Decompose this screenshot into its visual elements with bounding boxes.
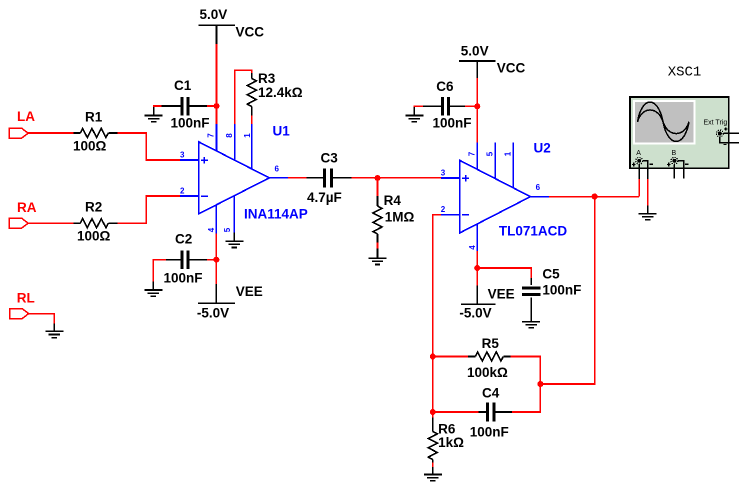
wire C4 right up to node	[512, 384, 540, 412]
resistor R5 100k	[467, 336, 511, 380]
wire C3 to U2 pin3	[351, 177, 441, 179]
svg-text:4.7µF: 4.7µF	[307, 190, 342, 205]
resistor R2 100 ohm	[73, 200, 117, 244]
svg-text:1: 1	[243, 133, 252, 138]
svg-text:R1: R1	[85, 110, 103, 125]
wire RA to R2	[28, 222, 73, 224]
ground (C5)	[522, 322, 540, 328]
wire scope A+ up	[638, 179, 640, 197]
svg-text:C5: C5	[542, 266, 560, 281]
svg-text:1MΩ: 1MΩ	[385, 210, 415, 225]
wire junction to R4	[377, 178, 379, 196]
wire C1 right to junction	[207, 105, 217, 107]
ground (C6)	[405, 107, 423, 122]
svg-text:4: 4	[468, 245, 477, 250]
svg-text:XSC1: XSC1	[668, 65, 702, 81]
svg-text:5: 5	[223, 227, 232, 232]
capacitor C3 4.7uF	[307, 150, 352, 205]
wire R6 to ground	[432, 463, 434, 468]
ground (C2)	[144, 282, 162, 297]
node junction R5 left	[430, 354, 436, 360]
capacitor C6	[423, 79, 471, 130]
svg-text:100nF: 100nF	[433, 116, 472, 131]
svg-text:12.4kΩ: 12.4kΩ	[258, 85, 303, 100]
svg-text:8: 8	[225, 133, 234, 138]
svg-text:2: 2	[441, 205, 446, 214]
svg-text:100nF: 100nF	[542, 283, 581, 298]
op-amp U2 TL071ACD	[441, 141, 568, 252]
svg-text:100nF: 100nF	[470, 425, 509, 440]
svg-text:6: 6	[536, 183, 541, 192]
node junction C2/VEE	[213, 257, 219, 263]
wire LA to R1	[28, 132, 73, 134]
capacitor C2	[164, 232, 208, 286]
wire R1 to U1 pin3	[118, 133, 181, 160]
svg-text:6: 6	[275, 164, 280, 173]
svg-text:U2: U2	[534, 141, 551, 156]
resistor R4 1M	[373, 193, 414, 242]
svg-text:100kΩ: 100kΩ	[467, 365, 508, 380]
svg-text:VCC: VCC	[497, 61, 526, 76]
wire junction to R6	[432, 412, 434, 418]
svg-text:C6: C6	[436, 79, 454, 94]
svg-text:-5.0V: -5.0V	[197, 306, 229, 321]
node junction C1/VCC	[214, 103, 220, 109]
svg-text:7: 7	[467, 151, 476, 156]
wire VCC to U1 pin7 / C1 junction	[216, 44, 218, 124]
svg-text:100Ω: 100Ω	[73, 138, 107, 153]
svg-text:INA114AP: INA114AP	[244, 207, 308, 222]
node junction VEE2/C5	[474, 265, 480, 271]
svg-text:3: 3	[441, 169, 446, 178]
wire C1 left to ground	[154, 106, 162, 108]
wire U2 pin2 feedback down	[433, 215, 441, 412]
svg-text:R3: R3	[258, 71, 276, 86]
svg-text:100nF: 100nF	[164, 271, 203, 286]
node junction C3/R4/U2	[375, 175, 381, 181]
wire feedback node to output column	[540, 196, 594, 384]
svg-text:2: 2	[180, 186, 185, 195]
svg-text:LA: LA	[17, 109, 35, 124]
svg-text:R4: R4	[384, 193, 402, 208]
svg-text:C3: C3	[321, 150, 339, 165]
svg-text:-5.0V: -5.0V	[459, 306, 491, 321]
svg-text:VCC: VCC	[236, 25, 265, 40]
resistor R3 12.4k gain resistor	[247, 71, 302, 116]
svg-text:5.0V: 5.0V	[200, 7, 228, 22]
svg-text:B: B	[672, 150, 677, 157]
wire R5 left	[433, 356, 468, 358]
svg-text:RA: RA	[17, 200, 37, 215]
wire junction to C5	[477, 268, 531, 278]
wire VCC2 down to U2 pin7	[476, 78, 478, 143]
svg-text:100nF: 100nF	[171, 116, 210, 131]
power VCC symbol (left, 5.0V)	[198, 7, 264, 44]
svg-text:7: 7	[207, 133, 216, 138]
svg-text:TL071ACD: TL071ACD	[499, 224, 568, 239]
ground (R4)	[369, 249, 387, 265]
ground (RL)	[45, 323, 63, 337]
node junction R5/C4 right	[537, 381, 543, 387]
node junction C6/VCC	[474, 103, 480, 109]
wire U1 pin4 down to VEE	[215, 234, 217, 285]
resistor R6 1k	[428, 418, 464, 463]
wire pin8 to R3 top	[235, 70, 252, 124]
svg-text:3: 3	[180, 151, 185, 160]
wire R2 to U1 pin2	[118, 196, 181, 223]
op-amp U1 INA114AP	[180, 124, 308, 234]
ground (R6)	[424, 467, 442, 481]
svg-text:VEE: VEE	[236, 284, 263, 299]
wire U1 output to C3	[288, 177, 307, 179]
oscilloscope XSC1	[630, 65, 739, 180]
svg-text:R5: R5	[482, 336, 500, 351]
wire U2 pin4 to VEE junction	[476, 251, 478, 286]
wire R4 to ground	[377, 243, 379, 249]
wire C6 right to junction	[465, 105, 477, 107]
node junction output/feedback	[592, 194, 598, 200]
svg-text:A: A	[636, 150, 641, 157]
power VEE symbol (right, -5.0V)	[459, 286, 514, 321]
svg-text:C4: C4	[482, 386, 500, 401]
svg-text:5: 5	[485, 151, 494, 156]
svg-text:C1: C1	[174, 78, 192, 93]
wire U2 output to scope	[549, 196, 639, 198]
wire C6 left to ground	[414, 106, 423, 108]
power VEE symbol (left, -5.0V)	[197, 284, 263, 321]
svg-text:1kΩ: 1kΩ	[438, 435, 464, 450]
capacitor C1	[162, 78, 210, 131]
svg-text:RL: RL	[17, 291, 35, 306]
wire C2 left to ground	[153, 260, 166, 282]
wire RL to ground	[29, 314, 55, 324]
node junction C4/R6	[430, 409, 436, 415]
svg-text:R2: R2	[85, 200, 102, 215]
wire R3 bottom to pin1	[251, 115, 253, 124]
ground (U1 pin5)	[225, 233, 243, 248]
svg-text:4: 4	[207, 227, 216, 232]
connector RL	[10, 291, 35, 319]
ground (scope A-)	[639, 206, 657, 220]
capacitor C4	[470, 386, 512, 440]
wire C2 right to pin4 node	[207, 259, 216, 261]
svg-text:R6: R6	[438, 421, 456, 436]
svg-text:100Ω: 100Ω	[77, 228, 111, 243]
svg-text:U1: U1	[273, 124, 291, 139]
svg-text:C2: C2	[175, 232, 192, 247]
svg-text:VEE: VEE	[488, 287, 515, 302]
svg-text:5.0V: 5.0V	[461, 43, 489, 58]
wire scope A- to ground	[647, 179, 649, 206]
scope sine waves	[638, 102, 690, 141]
connector RA	[9, 200, 37, 228]
power VCC symbol (right, 5.0V)	[459, 43, 526, 78]
wire R5 right down to node	[511, 357, 541, 385]
wire C4 left	[433, 411, 479, 413]
svg-text:1: 1	[503, 151, 512, 156]
capacitor C5	[522, 266, 581, 321]
svg-text:Ext Trig: Ext Trig	[704, 120, 728, 127]
connector LA	[9, 109, 35, 138]
ground (C1)	[145, 107, 163, 122]
resistor R1 100 ohm	[73, 110, 118, 154]
